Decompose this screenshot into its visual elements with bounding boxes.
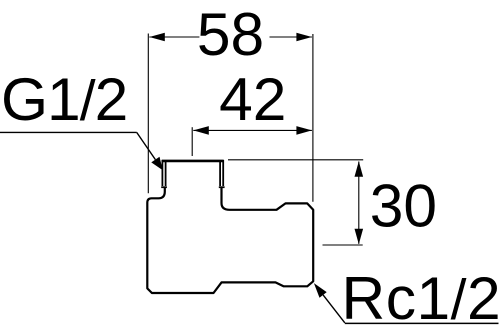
svg-text:G1/2: G1/2 [1, 65, 127, 133]
extension line left of dim 58 [147, 34, 149, 194]
dimension line 42 [193, 129, 312, 131]
dimension line 58 right segment [270, 36, 312, 38]
arrowhead 30 top [355, 161, 364, 177]
leader arrowhead of Rc1/2 [314, 283, 327, 298]
G1/2 port thread end tick left [161, 186, 167, 188]
svg-text:30: 30 [370, 171, 437, 239]
arrowhead 58 left [149, 33, 165, 42]
extension line left of dim 42 [191, 127, 193, 156]
fitting body outline [147, 188, 313, 294]
G1/2 port thread outer line right [222, 160, 224, 186]
leader diagonal of G1/2 [137, 132, 156, 159]
leader shelf line of Rc1/2 [345, 322, 499, 324]
arrowhead 42 left [193, 126, 209, 135]
arrowhead 42 right [296, 126, 312, 135]
leader shelf line of G1/2 [0, 131, 137, 133]
svg-text:Rc1/2: Rc1/2 [342, 264, 500, 332]
G1/2 port top face [162, 160, 224, 163]
G1/2 port thread end tick right [219, 186, 225, 188]
arrowhead 58 right [296, 33, 312, 42]
svg-text:42: 42 [219, 65, 286, 133]
G1/2 port thread inner line right [219, 161, 221, 186]
extension line bottom of dim 30 [323, 244, 363, 246]
G1/2 port thread inner line left [165, 161, 167, 186]
extension line right shared by dims 58 and 42 [312, 34, 314, 202]
leader diagonal of Rc1/2 [323, 295, 345, 323]
svg-text:58: 58 [197, 0, 264, 68]
extension line top of dim 30 [228, 159, 363, 161]
arrowhead 30 bottom [355, 229, 364, 245]
dimension line 58 left segment [149, 36, 199, 38]
G1/2 port thread outer line left [161, 160, 163, 186]
dimension line 30 [358, 162, 360, 244]
leader arrowhead of G1/2 [151, 157, 163, 171]
